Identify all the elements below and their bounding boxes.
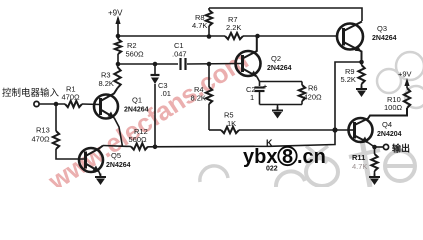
+9V supply left [117, 18, 119, 36]
svg-text:2N4204: 2N4204 [377, 131, 402, 138]
output terminal [375, 146, 384, 148]
input terminal [34, 101, 39, 106]
svg-text:4.7K: 4.7K [352, 162, 367, 171]
svg-text:Q1: Q1 [132, 96, 142, 105]
capacitor C2 / resistor R6 tank [260, 81, 303, 83]
capacitor C3 [154, 64, 156, 74]
watermark gray logo [200, 52, 423, 187]
ground R9 [361, 86, 363, 90]
svg-text:5.2K: 5.2K [341, 75, 356, 84]
svg-text:Q4: Q4 [382, 120, 392, 129]
svg-text:8.2K: 8.2K [99, 79, 114, 88]
svg-text:Q2: Q2 [271, 54, 281, 63]
svg-text:560Ω: 560Ω [126, 50, 145, 59]
resistor R12 [131, 143, 148, 149]
transistor Q4 2N4204 [348, 108, 407, 147]
svg-text:R13: R13 [36, 126, 50, 135]
wire: Q3 emitter to Q4 base node [335, 62, 362, 130]
svg-text:ybx: ybx [243, 146, 277, 168]
svg-text:.cn: .cn [297, 146, 326, 168]
resistor R7 [225, 33, 243, 39]
wire: R7 to Q3 base [243, 35, 337, 37]
svg-text:R6: R6 [308, 84, 318, 93]
svg-text:输出: 输出 [392, 143, 410, 154]
node: +9V junction [116, 34, 121, 39]
ground Q5 [100, 174, 102, 178]
wire: line A to Q4 base [209, 129, 221, 131]
wire: top supply rail [209, 8, 362, 21]
wire: input to R1 [40, 103, 66, 105]
wire: line B emitter rail [103, 146, 131, 147]
ground R11 [374, 174, 376, 178]
wire: C1 to Q2 base [187, 63, 243, 66]
transistor Q2 2N4264 [236, 36, 292, 82]
resistor R5 [221, 127, 239, 133]
resistor R9 [358, 65, 364, 84]
resistor R6 [301, 82, 303, 86]
svg-text:+: + [263, 84, 267, 91]
transistor Q1 2N4264 [94, 88, 149, 147]
node: R8 bottom [207, 34, 212, 39]
svg-text:560Ω: 560Ω [129, 135, 148, 144]
resistor R3 [117, 64, 120, 67]
resistor R10 [404, 88, 410, 108]
svg-text:2N4264: 2N4264 [372, 35, 397, 42]
resistor R11 [374, 147, 376, 154]
svg-text:+9V: +9V [108, 9, 123, 18]
svg-text:8.2K: 8.2K [191, 94, 206, 103]
resistor R2 [117, 36, 119, 39]
node: Q4 emitter junction [372, 145, 377, 150]
svg-text:100Ω: 100Ω [384, 103, 403, 112]
svg-text:470Ω: 470Ω [62, 93, 81, 102]
svg-text:4.7K: 4.7K [192, 21, 207, 30]
node: input junction [54, 102, 59, 107]
svg-text:Q3: Q3 [377, 24, 387, 33]
resistor R1 [65, 101, 82, 107]
svg-text:+9V: +9V [398, 70, 412, 79]
node: Q3 emitter junction [359, 60, 364, 65]
ground C2/R6 [277, 105, 279, 111]
svg-text:2N4264: 2N4264 [267, 65, 292, 72]
wire: bias rail y=36 [118, 35, 225, 37]
transistor Q5 2N4264 [79, 146, 131, 177]
svg-text:470Ω: 470Ω [32, 135, 51, 144]
svg-text:Q5: Q5 [111, 151, 121, 160]
node: Q2 collector junction [255, 34, 260, 39]
svg-text:2N4264: 2N4264 [106, 162, 131, 169]
svg-text:2N4264: 2N4264 [124, 107, 149, 114]
svg-text:2.2K: 2.2K [226, 23, 241, 32]
node: C3 junction on line B [153, 145, 158, 150]
wire: R1 to Q1 base [82, 103, 100, 106]
svg-text:R11: R11 [352, 153, 365, 162]
resistor R13 [55, 104, 57, 131]
capacitor C1 [179, 58, 181, 70]
svg-text:.047: .047 [172, 50, 187, 59]
node: Q4 base junction [332, 127, 337, 132]
svg-text:.01: .01 [161, 89, 171, 98]
svg-text:控制电器输入: 控制电器输入 [2, 87, 60, 99]
svg-text:420Ω: 420Ω [304, 93, 323, 102]
svg-text:1K: 1K [227, 119, 236, 128]
svg-text:1: 1 [250, 93, 254, 102]
wire: node line y=64 [118, 63, 178, 65]
resistor R8 [208, 8, 210, 10]
transistor Q3 2N4264 [337, 22, 397, 63]
resistor R4 [208, 64, 210, 87]
